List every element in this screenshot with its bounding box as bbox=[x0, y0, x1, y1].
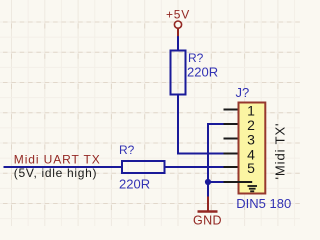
svg-text:220R: 220R bbox=[119, 176, 150, 191]
svg-text:(5V, idle high): (5V, idle high) bbox=[14, 166, 97, 180]
svg-text:DIN5 180: DIN5 180 bbox=[236, 196, 291, 211]
svg-text:5: 5 bbox=[247, 160, 255, 176]
svg-text:'Midi TX': 'Midi TX' bbox=[273, 123, 288, 180]
svg-text:+5V: +5V bbox=[166, 8, 190, 22]
svg-text:3: 3 bbox=[247, 131, 255, 147]
svg-text:R?: R? bbox=[188, 51, 204, 65]
svg-text:J?: J? bbox=[236, 85, 250, 100]
svg-text:220R: 220R bbox=[187, 65, 218, 80]
svg-text:GND: GND bbox=[193, 214, 222, 226]
svg-text:Midi UART TX: Midi UART TX bbox=[14, 153, 101, 167]
svg-text:R?: R? bbox=[119, 143, 135, 157]
